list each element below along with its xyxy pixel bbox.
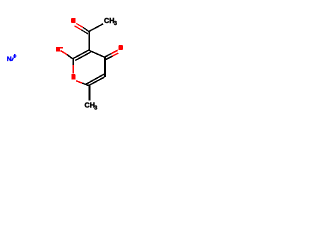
svg-text:N: N bbox=[7, 56, 12, 63]
ring double bond C5=C6 bbox=[89, 77, 105, 86]
acetyl C=O double bond bbox=[81, 27, 89, 34]
methyl CH3 bottom bbox=[85, 101, 98, 112]
ring bond C4-C5 bbox=[104, 57, 106, 77]
ring bond C2-O1 (black half) bbox=[72, 59, 74, 65]
bond C2 to enolate O- (red half) bbox=[61, 51, 68, 55]
svg-text:3: 3 bbox=[94, 106, 97, 112]
ring oxygen O1 bbox=[71, 74, 75, 79]
ketone C4=O double bond bbox=[105, 54, 113, 60]
bond acetyl C to ring C3 bbox=[88, 32, 90, 51]
bond C2 to enolate O- (black half) bbox=[67, 55, 72, 59]
minus sign of O- bbox=[60, 47, 63, 48]
methyl CH3 top bbox=[104, 16, 117, 27]
ring double bond C2=C3 bbox=[73, 50, 89, 59]
ring bond O1-C6 (red half) bbox=[76, 81, 82, 83]
sodium cation Na+ bbox=[7, 54, 17, 63]
ring bond O1-C6 (black half) bbox=[82, 83, 88, 85]
enolate oxygen O- bbox=[56, 47, 60, 52]
bond C-CH3 top bbox=[89, 24, 103, 32]
ring bond C2-O1 (red half) bbox=[72, 65, 74, 74]
svg-text:CH: CH bbox=[104, 16, 114, 25]
bond C6 to CH3 bottom bbox=[89, 86, 91, 101]
ketone oxygen O bbox=[119, 45, 123, 50]
ring bond C3-C4 bbox=[89, 50, 105, 57]
svg-text:3: 3 bbox=[114, 21, 117, 27]
acetyl oxygen O bbox=[71, 18, 75, 23]
